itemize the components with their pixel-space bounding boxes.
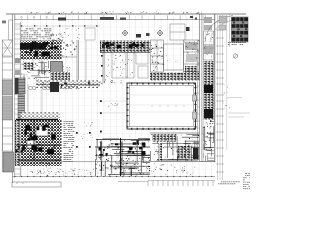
north mid specks (50, 28, 95, 41)
west ramp with X braces (2, 40, 12, 79)
east wing lower band dense (150, 72, 199, 80)
mid-west band (36, 79, 100, 92)
grid bubble pair symbols (28, 84, 50, 120)
sheet top border line (6, 13, 246, 15)
south rooms mesh (east) (150, 133, 199, 162)
bottom right scale text (218, 173, 251, 189)
north central rooms (103, 40, 148, 83)
column grid lines (13, 16, 215, 177)
central courtyard hall (126, 82, 196, 130)
northeast hatched band (232, 17, 249, 42)
east core rooms strip (199, 14, 215, 162)
northeast room block (151, 40, 200, 80)
west gray ramp A (3, 80, 13, 95)
west gray ramp B (3, 97, 13, 120)
east dimension lines (216, 15, 230, 180)
west gray ramp C (3, 152, 14, 172)
bottom legend strip rectangle (12, 182, 61, 187)
northwest plant rooms dense (20, 40, 62, 59)
notes text block upper-left (21, 29, 52, 40)
north corridor walls (50, 40, 86, 80)
curb gray blocks (219, 14, 230, 47)
south wall line (14, 161, 150, 163)
west concourse symbols (96, 80, 130, 132)
north entry pinwheel symbols (122, 27, 190, 38)
north central dense band (100, 41, 151, 53)
bottom dimension line (12, 171, 215, 177)
stair block (15, 78, 25, 94)
northeast driveway arc (205, 16, 233, 43)
top grid dimension line (14, 11, 215, 20)
left tall entry box (9, 20, 13, 40)
rung ramp (18, 95, 25, 118)
south-central open bay columns (76, 122, 93, 148)
northeast small text (228, 42, 246, 58)
southwest mechanical dense block (15, 113, 62, 173)
north facade line (15, 25, 100, 27)
north room box (170, 24, 185, 40)
top grid bubbles (21, 16, 48, 18)
east corridor walls (196, 14, 200, 161)
schedule text column (64, 121, 76, 162)
west mid rooms medium (21, 61, 50, 80)
west lower zone (3, 120, 13, 151)
south scattered specks (31, 161, 196, 182)
center-west block (50, 62, 70, 81)
west corridor room strip (15, 22, 21, 176)
bottom tick fence (148, 181, 215, 187)
east stub lines (228, 98, 250, 118)
south rooms mesh (center) (95, 138, 150, 176)
left boundary wall (2, 14, 15, 183)
